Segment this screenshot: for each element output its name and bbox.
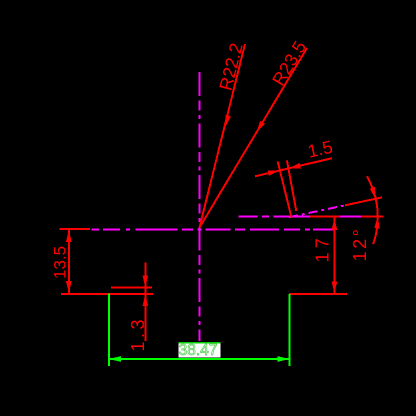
centerline vertical <box>199 72 201 341</box>
dimension 17 line <box>333 218 335 294</box>
dimension 13.5 line <box>68 229 70 294</box>
svg-text:17: 17 <box>313 234 333 262</box>
wire: red horizontal extension at y216.5 (angle+17) <box>289 216 384 218</box>
svg-text:38.47: 38.47 <box>179 342 218 359</box>
wire: green extension line right <box>289 294 291 366</box>
dimension 1.3 line <box>144 263 146 341</box>
centerline sloped 12deg <box>289 205 345 217</box>
radius dimension R22.2 line <box>200 44 246 228</box>
wire: red extension line lower-left (13.5 / 1.3 lower) <box>61 293 153 295</box>
centerline horizontal main <box>92 228 334 230</box>
wire: red sloped extension of 12deg line <box>345 197 382 205</box>
svg-text:13.5: 13.5 <box>51 246 70 279</box>
wire: green extension line left <box>108 294 110 367</box>
centerline horizontal upper-right <box>239 216 291 218</box>
wire: red extension line (1.3 upper) <box>111 287 152 289</box>
svg-text:12°: 12° <box>350 227 370 262</box>
wire: 1.5 extension line A <box>278 162 292 219</box>
wire: 1.5 extension line B <box>287 160 296 211</box>
dimension 1.5 line <box>255 158 332 176</box>
dimension 38.47 line <box>109 358 290 360</box>
node: white edit box for dimension text <box>178 342 220 357</box>
centerline magenta dash over red y216.5 <box>293 216 362 218</box>
radius dimension R23.5 line <box>200 48 308 228</box>
wire: red extension line top-left (13.5 upper) <box>60 228 91 230</box>
angular dimension 12deg arc <box>367 176 378 244</box>
wire: red extension line right (17 bottom) <box>289 293 347 295</box>
svg-text:1.3: 1.3 <box>128 316 148 352</box>
